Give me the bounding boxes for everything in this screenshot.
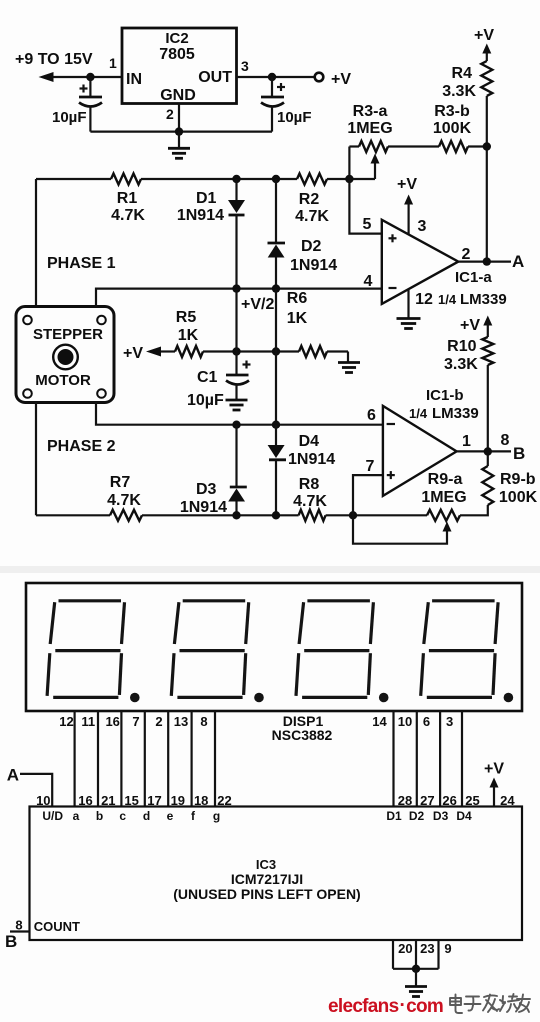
display DISP1 box [26,583,522,711]
svg-text:21: 21 [101,793,115,808]
svg-text:D2: D2 [301,238,322,255]
svg-text:1MEG: 1MEG [421,489,466,506]
svg-text:D2: D2 [409,809,425,823]
svg-text:R8: R8 [299,476,320,493]
svg-text:8: 8 [501,432,510,449]
resistor R7 4.7K [107,474,142,521]
DISP1 digit 1 [47,601,140,703]
svg-text:4.7K: 4.7K [295,208,329,225]
svg-text:15: 15 [124,793,138,808]
svg-text:IN: IN [126,71,142,88]
resistor R3-b 100K [433,103,472,152]
counter IC3 box [30,807,523,941]
svg-text:OUT: OUT [198,69,232,86]
wire R5 to R6 [203,347,299,355]
svg-text:1: 1 [109,55,117,71]
svg-text:8: 8 [15,918,22,933]
svg-text:b: b [96,809,103,823]
power +V arrow (IC1-a pin 3) [397,176,417,234]
svg-text:MOTOR: MOTOR [35,372,91,389]
svg-text:8: 8 [200,714,207,729]
wires DISP1 digit drivers D1-D4 to IC3 [394,711,463,807]
svg-text:10: 10 [36,793,50,808]
svg-text:6: 6 [423,714,430,729]
IC3 input names (U/D, a-g, D1-D4) [42,809,472,823]
svg-text:20: 20 [398,941,412,956]
svg-text:f: f [191,809,196,823]
svg-text:R9-b: R9-b [500,471,536,488]
svg-text:D4: D4 [456,809,472,823]
svg-text:e: e [167,809,174,823]
svg-text:(UNUSED PINS LEFT OPEN): (UNUSED PINS LEFT OPEN) [173,886,360,902]
svg-text:U/D: U/D [42,809,63,823]
svg-text:+V: +V [484,761,504,778]
svg-text:1/4: 1/4 [409,406,428,421]
svg-text:A: A [7,766,19,785]
ground (IC3) [405,985,427,988]
svg-text:27: 27 [420,793,434,808]
svg-text:3: 3 [446,714,453,729]
node B (output, pin 8) [501,432,526,463]
svg-text:R4: R4 [452,65,473,82]
svg-text:12: 12 [415,291,433,308]
wire IC1-b output to B [457,447,511,455]
svg-text:GND: GND [160,87,196,104]
diode D3 1N914 [180,425,247,516]
svg-text:22: 22 [217,793,231,808]
resistor R8 4.7K [293,476,327,521]
svg-text:D4: D4 [299,433,320,450]
svg-text:28: 28 [398,793,412,808]
wire R6 to ground [327,352,348,363]
wire R10 to IC1-b output [487,365,489,452]
svg-text:17: 17 [147,793,161,808]
scan artifact band [0,566,540,573]
wire up to R3-a left terminal [348,147,350,180]
svg-text:+V: +V [331,71,351,88]
svg-text:PHASE 1: PHASE 1 [47,255,116,272]
node +9 TO 15V input arrow [15,51,93,82]
capacitor 10uF (output) [261,77,312,132]
svg-text:1N914: 1N914 [180,499,227,516]
svg-text:16: 16 [105,714,119,729]
DISP1 digit 3 [296,601,389,703]
svg-text:4.7K: 4.7K [111,207,145,224]
wire R4 to IC1-a output bus [483,96,491,262]
svg-text:3: 3 [418,218,427,235]
svg-text:D3: D3 [433,809,449,823]
diode D2 1N914 [268,179,338,289]
resistor R4 3.3K [442,61,492,100]
svg-text:PHASE 2: PHASE 2 [47,438,116,455]
capacitor C1 10uF [187,352,251,410]
svg-text:R7: R7 [110,474,131,491]
power +V arrow (R4) [474,27,494,61]
ground (IC1-a) [397,317,421,320]
svg-text:IC1-b: IC1-b [426,387,464,404]
svg-text:D1: D1 [196,190,217,207]
wire colB (D2 to D4) [275,289,277,425]
svg-text:1N914: 1N914 [288,451,335,468]
svg-text:+V: +V [474,27,494,44]
svg-text:3: 3 [241,58,249,74]
potentiometer R9-a 1MEG [421,471,466,521]
svg-text:4.7K: 4.7K [293,493,327,510]
DISP1 digit 2 [171,601,264,703]
left bus (lower) [35,403,37,516]
wire R7 to R8 [142,511,299,519]
svg-text:IC3: IC3 [256,857,276,872]
svg-text:B: B [5,932,17,951]
svg-text:IC2: IC2 [165,30,188,47]
capacitor 10uF (input) [52,77,102,132]
svg-text:1: 1 [462,433,471,450]
node B wire to IC3 COUNT pin 8 [5,918,80,952]
wire IC1-b pin 7 [353,458,383,515]
R3-a wiper arrow [371,154,380,180]
DISP1 pin labels right [372,714,453,729]
resistor R2 4.7K [295,174,329,226]
resistor R1 4.7K [111,174,145,225]
svg-text:elecfans·com: elecfans·com [328,995,443,1017]
svg-text:a: a [73,809,80,823]
svg-text:g: g [213,809,220,823]
svg-text:10µF: 10µF [187,392,224,409]
wires DISP1 segments a-g to IC3 [75,711,215,807]
ground (power supply) [168,132,190,159]
svg-text:+V: +V [397,176,417,193]
resistor R5 1K [175,309,203,357]
svg-text:5: 5 [363,216,372,233]
wire R3-a to R3-b [388,145,439,147]
wire R1 to R2 [141,175,297,183]
svg-text:7805: 7805 [159,46,195,63]
svg-text:19: 19 [171,793,185,808]
op-amp IC1-b (1/4 LM339) [367,387,479,496]
svg-text:A: A [512,252,524,271]
ground (C1) [226,399,248,402]
svg-text:100K: 100K [433,120,472,137]
svg-text:R1: R1 [117,190,138,207]
svg-text:10µF: 10µF [52,109,87,126]
svg-text:2: 2 [166,106,174,122]
wire R8 to R9-a [326,511,427,519]
IC3 bottom pins 20 23 9 to ground [393,940,452,986]
svg-text:d: d [143,809,150,823]
svg-text:R6: R6 [287,290,308,307]
svg-text:14: 14 [372,714,387,729]
regulator IC2 7805 [122,28,237,104]
svg-text:25: 25 [465,793,479,808]
wire R9-b top to output junction [487,452,489,467]
svg-text:1MEG: 1MEG [347,120,392,137]
svg-text:4.7K: 4.7K [107,492,141,509]
svg-text:100K: 100K [499,489,538,506]
junction output node [268,73,276,81]
svg-text:D1: D1 [386,809,402,823]
wire IC1-a output to A [458,257,511,265]
IC3 label [173,857,360,902]
svg-text:STEPPER: STEPPER [33,326,103,343]
svg-text:23: 23 [420,941,434,956]
svg-text:11: 11 [81,714,95,729]
svg-text:+9 TO 15V: +9 TO 15V [15,51,93,68]
watermark chinese characters [450,994,530,1013]
power +V arrow (IC3 pin 24) [484,761,504,807]
svg-text:1N914: 1N914 [290,257,337,274]
wire +V/2 row (motor to IC1-a pin 4) [96,284,382,306]
svg-text:D3: D3 [196,481,217,498]
wire colA (D1 to C1) [235,289,237,352]
op-amp IC1-a (1/4 LM339) [382,218,507,308]
potentiometer R3-a 1MEG [347,103,392,152]
svg-text:1K: 1K [178,327,199,344]
svg-text:C1: C1 [197,369,218,386]
svg-text:R3-a: R3-a [353,103,388,120]
wire R9-a to R9-b [460,505,488,515]
DISP1 pin labels left [59,714,207,729]
wire phase 2 row (motor to IC1-b pin 6) [96,403,383,429]
svg-text:R2: R2 [299,191,320,208]
svg-text:10µF: 10µF [277,109,312,126]
svg-text:LM339: LM339 [460,291,507,308]
IC3 top pin numbers [36,793,515,808]
svg-text:R5: R5 [176,309,197,326]
svg-text:18: 18 [194,793,208,808]
wire input to IC2 pin 1 [90,55,122,77]
svg-text:9: 9 [444,941,451,956]
svg-text:3.3K: 3.3K [444,356,478,373]
svg-text:+V: +V [123,345,143,362]
diode D4 1N914 [268,425,336,516]
svg-text:c: c [119,809,126,823]
junction input node [86,73,94,81]
svg-text:NSC3882: NSC3882 [272,727,333,743]
wire IC2 pin 3 to +V terminal [237,58,315,77]
wire IC1-a ground (pin 12) [407,290,409,318]
svg-text:1K: 1K [287,310,308,327]
svg-text:B: B [513,444,525,463]
wire top rail from left bus [36,178,111,180]
wire R3-b to right bus [468,145,487,147]
svg-text:7: 7 [366,458,375,475]
svg-text:3.3K: 3.3K [442,83,476,100]
svg-text:6: 6 [367,407,376,424]
svg-text:1N914: 1N914 [177,207,224,224]
diode D1 1N914 [177,179,245,289]
power +V arrow (R10) [460,316,492,338]
resistor R10 3.3K [444,337,493,373]
resistor R9-b 100K [482,466,537,506]
svg-text:2: 2 [462,246,471,263]
svg-text:IC1-a: IC1-a [455,269,492,286]
terminal +V (open circle) [315,71,352,88]
svg-text:+V/2: +V/2 [241,296,274,313]
svg-text:+V: +V [460,317,480,334]
node A wire to IC3 U/D pin 10 [7,766,53,807]
svg-text:4: 4 [364,273,373,290]
svg-text:16: 16 [78,793,92,808]
svg-text:24: 24 [500,793,515,808]
svg-text:2: 2 [155,714,162,729]
svg-text:1/4: 1/4 [438,292,457,307]
svg-text:10: 10 [398,714,412,729]
svg-text:12: 12 [59,714,73,729]
ground (R6) [338,361,360,364]
wire R7 row start [36,514,110,516]
svg-text:LM339: LM339 [432,405,479,422]
resistor R6 1K [287,290,327,357]
svg-text:26: 26 [442,793,456,808]
wire ground rail under IC2 [90,104,272,132]
DISP1 digit 4 [421,601,514,703]
svg-text:R3-b: R3-b [434,103,470,120]
svg-text:ICM7217IJI: ICM7217IJI [231,871,303,887]
svg-text:R10: R10 [447,338,476,355]
svg-text:COUNT: COUNT [34,919,80,934]
svg-text:R9-a: R9-a [428,471,463,488]
svg-text:13: 13 [174,714,188,729]
power +V arrow (R5, pointing left) [123,345,175,362]
stepper motor [16,307,114,403]
svg-text:7: 7 [132,714,139,729]
wire R2 to pot junction [327,175,375,183]
DISP1 label [272,713,333,743]
R9-a wiper arrow + feedback wire [353,515,452,543]
left bus (upper) [35,179,37,307]
wire IC1-a pin 5 [349,179,381,234]
junction ground rail [175,127,183,135]
